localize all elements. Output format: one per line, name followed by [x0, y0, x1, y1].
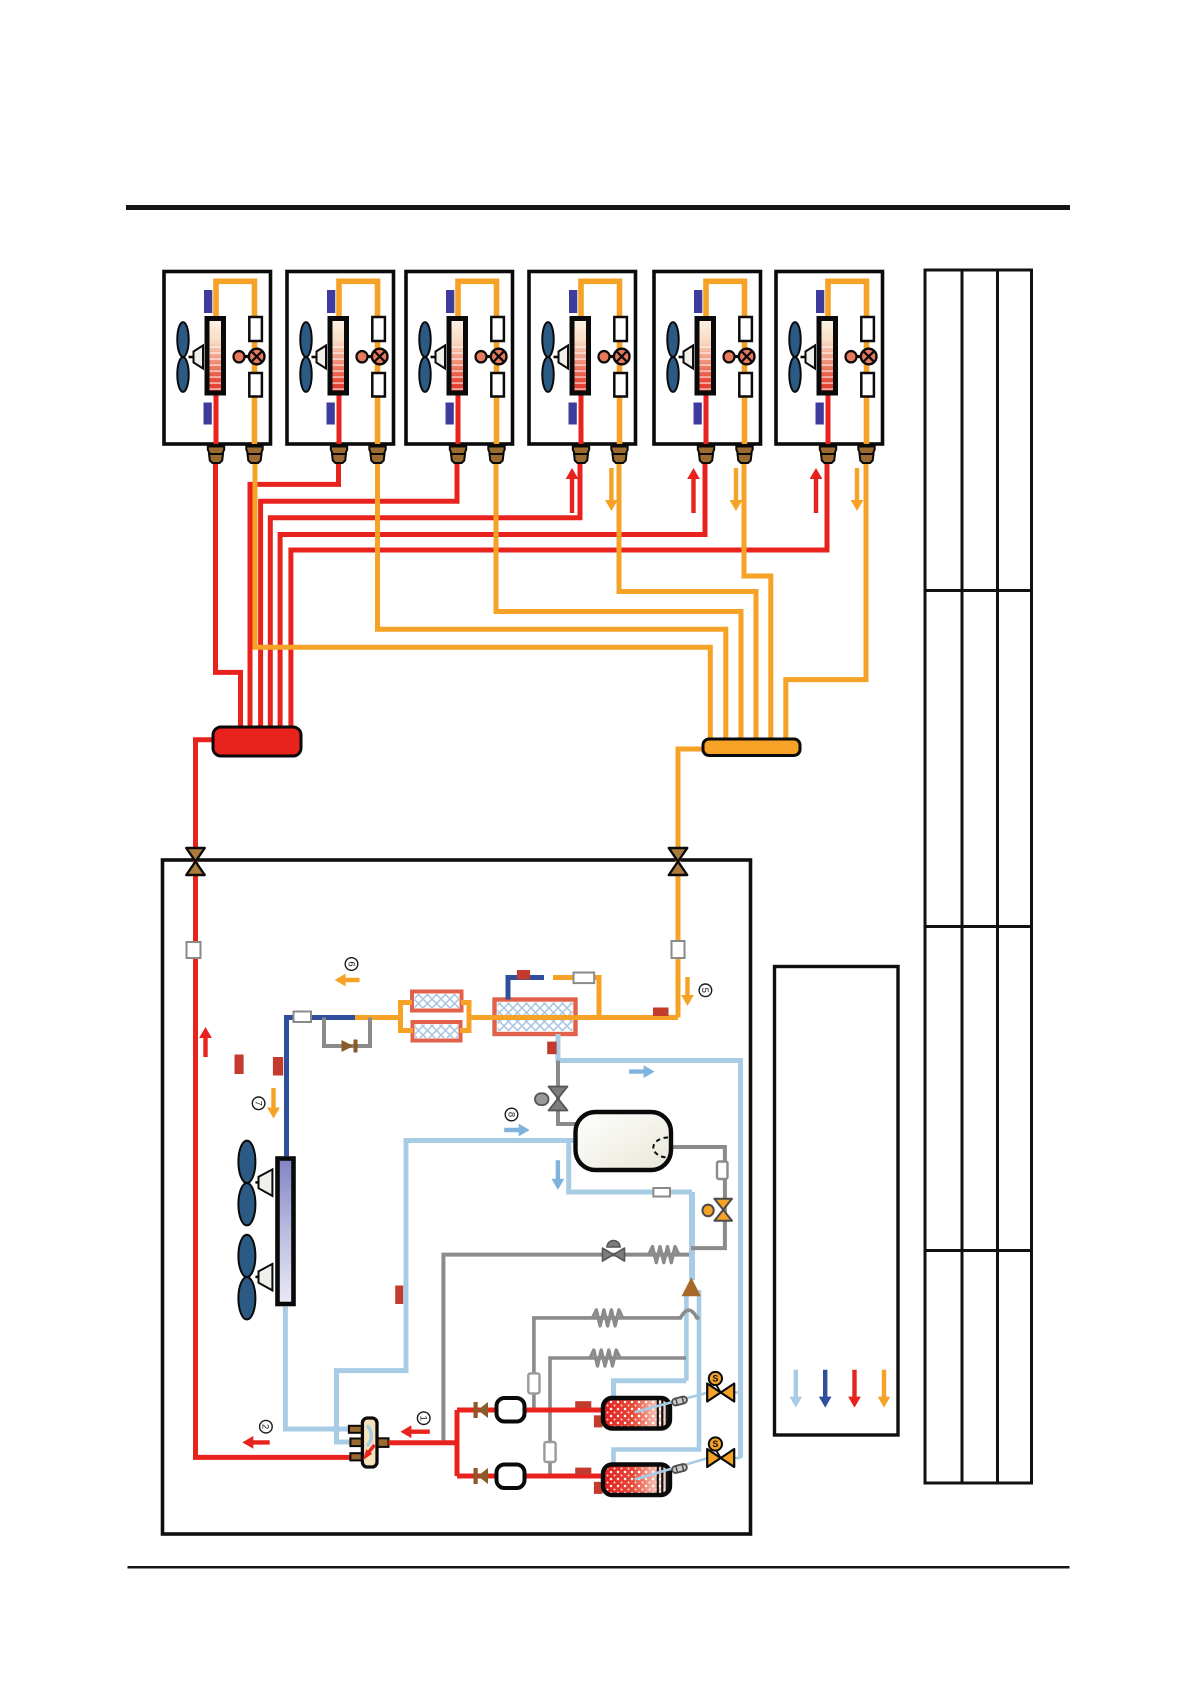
wire: indoor unit 6 liquid pipe (red): [826, 392, 831, 444]
service valve (orange line): [669, 848, 688, 862]
flow arrows at branch pipes: [566, 468, 579, 513]
thermistor (bottom) unit 2: [327, 403, 335, 425]
heat exchanger unit 3: [449, 319, 466, 394]
thermistor (bottom) unit 1: [204, 403, 212, 425]
thermistor (bottom) unit 6: [816, 403, 824, 425]
thermistor (bottom) unit 3: [446, 403, 454, 425]
check valve (oil lift, triangle): [682, 1277, 701, 1296]
main plate heat exchanger: [495, 1000, 576, 1035]
muffler comp1: [497, 1398, 525, 1422]
strainer on main orange line: [672, 941, 685, 958]
flow arrow down near accumulator branch: [552, 1160, 565, 1190]
thermistor (top) unit 5: [694, 290, 702, 313]
flare connection unit 4: [573, 447, 589, 455]
svg-text:5: 5: [699, 988, 710, 993]
sight glass on outlet: [717, 1162, 728, 1180]
thermistor (top) unit 3: [446, 290, 454, 313]
wire: main red line from header to outdoor unit: [196, 740, 351, 1458]
solenoid valve (hot gas bypass): [603, 1248, 614, 1261]
svg-text:S: S: [712, 1374, 718, 1384]
outdoor coil heat exchanger: [278, 1159, 294, 1305]
flow arrow right on suction: [629, 1065, 655, 1078]
bottom rule: [128, 1566, 1070, 1569]
heat exchanger unit 1: [207, 319, 224, 394]
wire: accumulator outlet to compressors: [671, 1147, 725, 1248]
wire: indoor unit 5 gas pipe (orange): [706, 281, 745, 444]
legend arrows: [789, 1370, 802, 1408]
wire: suction branch below accumulator: [569, 1143, 692, 1192]
wire: indoor unit 1 liquid pipe (red): [214, 392, 219, 444]
thermistor (top) unit 1: [204, 290, 212, 313]
wire: orange liquid line through heat exchangers: [355, 1015, 401, 1020]
indoor unit 5: [654, 272, 761, 445]
svg-text:S: S: [712, 1439, 718, 1449]
wire: main red line inside outdoor unit: [196, 740, 351, 1457]
indoor unit 6: [776, 272, 883, 445]
discharge thermistors: [575, 1401, 591, 1408]
filter (bottom) unit 3: [491, 373, 504, 397]
orange header manifold: [703, 739, 800, 756]
service valve (red line): [186, 848, 205, 862]
wire: navy sensor line at main HX: [508, 978, 544, 1000]
compressor 2: [603, 1465, 670, 1496]
accumulator: [576, 1112, 672, 1170]
flare connection unit 5: [698, 447, 714, 455]
filter (top) unit 6: [861, 317, 874, 341]
wire: indoor unit 1 gas pipe (orange): [216, 281, 255, 444]
heat exchanger unit 4: [572, 319, 589, 394]
capillary (spring) on hot gas bypass: [649, 1247, 679, 1263]
wire: indoor unit 4 liquid pipe (red): [579, 392, 584, 444]
wire: indoor unit 2 liquid pipe (red): [337, 392, 342, 444]
top rule: [126, 205, 1070, 210]
electronic expansion valve unit 4: [608, 355, 615, 358]
wire: navy line to outdoor coil: [287, 1018, 356, 1157]
wire: outdoor coil suction down: [285, 1307, 352, 1429]
filter (bottom) unit 4: [614, 373, 627, 397]
electronic expansion valve unit 3: [485, 355, 492, 358]
wire: indoor unit 4 gas pipe (orange): [581, 281, 620, 444]
filter (bottom) unit 5: [739, 373, 752, 397]
fan unit 3: [419, 322, 430, 392]
muffler on bypass: [574, 973, 595, 984]
strainer on suction branch: [653, 1188, 670, 1197]
indoor unit 1: [164, 272, 271, 445]
label 8 with right arrow: [504, 1124, 530, 1137]
check valve (bypass): [342, 1040, 354, 1052]
flare connection unit 4: [611, 447, 627, 455]
thermistor at HX bottom: [547, 1042, 556, 1055]
outdoor fan 1: [238, 1141, 255, 1226]
label 5 with down arrow: [681, 977, 694, 1006]
wire: suction drop to compressors: [689, 1192, 695, 1280]
electronic expansion valve unit 6: [855, 355, 862, 358]
wire: discharge branch comp2: [457, 1474, 603, 1479]
compressor 1: [603, 1398, 670, 1429]
four-way valve: [349, 1426, 362, 1433]
fan unit 2: [300, 322, 311, 392]
check valve comp1: [474, 1402, 478, 1418]
thermistor on suction riser: [395, 1286, 403, 1305]
outdoor unit casing: [163, 860, 751, 1534]
strainer on main red line: [187, 942, 201, 958]
filter (top) unit 4: [614, 317, 627, 341]
flow arrow up on red main: [199, 1027, 212, 1057]
oil pickup line comp1: [635, 1393, 708, 1413]
svg-text:6: 6: [345, 961, 356, 966]
subcool heat exchanger (upper plate): [412, 992, 462, 1011]
electronic expansion valve unit 5: [733, 355, 740, 358]
fan unit 5: [667, 322, 678, 392]
wire: red branch pipes to red header: [216, 440, 241, 735]
fan unit 4: [542, 322, 553, 392]
filter (bottom) unit 2: [372, 373, 385, 397]
label 7 with down arrow: [267, 1088, 280, 1119]
thermistor (top) unit 4: [569, 290, 577, 313]
filter (bottom) unit 1: [249, 373, 262, 397]
filter (top) unit 5: [739, 317, 752, 341]
oil solenoid valve (orange): [714, 1199, 732, 1210]
filter (bottom) unit 6: [861, 373, 874, 397]
check valve comp2: [474, 1468, 478, 1484]
oil solenoid S-valve comp2: [734, 1457, 741, 1460]
bypass loop with check valve: [324, 1018, 370, 1047]
flare connection unit 2: [331, 447, 347, 455]
electronic expansion valve unit 2: [366, 355, 373, 358]
flare connection unit 2: [369, 447, 385, 455]
heat exchanger unit 2: [330, 319, 347, 394]
wire: oil return 2 with capillary: [550, 1358, 686, 1474]
wire: hot gas bypass with solenoid: [443, 1255, 689, 1441]
svg-text:7: 7: [252, 1101, 263, 1106]
thermistor on navy sensor line: [517, 970, 530, 979]
thermistor (bottom) unit 4: [569, 403, 577, 425]
wire: discharge line from compressors: [389, 1440, 458, 1445]
oil pickup line comp2: [635, 1458, 708, 1480]
label 2 with left arrow: [242, 1436, 269, 1449]
muffler comp2: [497, 1465, 525, 1489]
filter (top) unit 1: [249, 317, 262, 341]
thermistor B: [235, 1055, 244, 1075]
legend box: [775, 967, 899, 1436]
wire: indoor unit 3 liquid pipe (red): [456, 392, 461, 444]
fan unit 6: [789, 322, 800, 392]
indoor unit 3: [406, 272, 513, 445]
wire: discharge branch comp1: [457, 1408, 603, 1413]
red path inside 4-way valve: [368, 1445, 375, 1453]
solenoid valve above accumulator: [549, 1087, 568, 1099]
wire: indoor unit 3 gas pipe (orange): [458, 281, 497, 444]
indoor unit 2: [287, 272, 394, 445]
wire: gray drop from plate HX to accumulator: [558, 1061, 576, 1125]
svg-text:2: 2: [260, 1424, 271, 1429]
wire: main suction to accumulator and riser from 4-way valve: [337, 1141, 576, 1443]
outdoor fan 2: [238, 1235, 255, 1320]
electronic expansion valve unit 1: [243, 355, 250, 358]
flare connection unit 3: [488, 447, 504, 455]
sight glass on oil return 1: [528, 1373, 539, 1393]
thermistor (top) unit 2: [327, 290, 335, 313]
svg-text:1: 1: [417, 1416, 428, 1421]
wire: indoor unit 2 gas pipe (orange): [339, 281, 378, 444]
thermistor (top) unit 6: [816, 290, 824, 313]
heat exchanger unit 6: [819, 319, 836, 394]
fan unit 1: [177, 322, 188, 392]
flare connection unit 1: [246, 447, 262, 455]
flare connection unit 6: [858, 447, 874, 455]
wire: oil return 1 with capillary: [534, 1310, 700, 1407]
indoor unit 4: [529, 272, 636, 445]
filter (top) unit 3: [491, 317, 504, 341]
notes table: [925, 270, 1032, 1483]
flare connection unit 6: [820, 447, 836, 455]
subcool heat exchanger (lower plate): [413, 1022, 461, 1041]
wire: discharge branch verticals: [455, 1410, 460, 1476]
label 6 with left arrow: [335, 974, 360, 987]
thermistor (bottom) unit 5: [694, 403, 702, 425]
filter (top) unit 2: [372, 317, 385, 341]
junction arrow at 4-way valve suction: [331, 1428, 342, 1438]
thermistor A: [273, 1057, 283, 1076]
flare connection unit 5: [736, 447, 752, 455]
wire: indoor unit 6 gas pipe (orange): [828, 281, 867, 444]
thermistor on orange main horizontal: [653, 1008, 669, 1017]
flare connection unit 3: [450, 447, 466, 455]
flare connection unit 1: [208, 447, 224, 455]
wire: orange bypass with muffler: [553, 978, 599, 1018]
heat exchanger unit 5: [697, 319, 714, 394]
strainer on navy line: [294, 1012, 312, 1023]
wire: orange branch pipes to orange header: [255, 440, 710, 742]
oil solenoid S-valve comp1: [734, 1391, 741, 1394]
label 1 with left arrow: [400, 1425, 429, 1438]
wire: main orange line into outdoor unit: [676, 751, 681, 1018]
red header manifold: [213, 727, 301, 756]
svg-text:8: 8: [505, 1112, 516, 1117]
wire: main orange line from header to outdoor unit: [678, 749, 704, 860]
wire: indoor unit 5 liquid pipe (red): [704, 392, 709, 444]
wire: suction line from plate HX bottom: [558, 1034, 741, 1458]
